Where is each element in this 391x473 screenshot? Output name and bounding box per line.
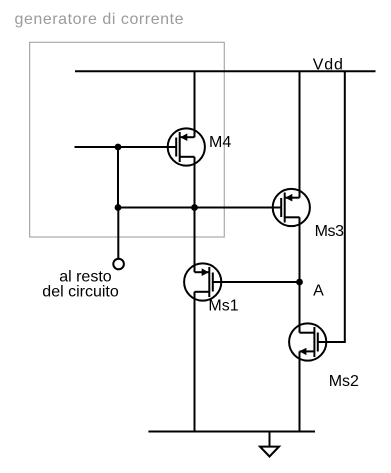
wire: Ms1 gate to node A	[213, 281, 300, 283]
wire: bias line to Ms3 gate	[118, 207, 281, 209]
wire: M4 bottom to Ms1 top	[194, 157, 196, 272]
svg-text:Vdd: Vdd	[313, 57, 344, 74]
transistor Ms3 (gate left)	[273, 189, 310, 226]
svg-text:M4: M4	[209, 134, 231, 151]
svg-text:Ms3: Ms3	[315, 223, 345, 240]
wire: M4 gate stub	[75, 146, 177, 148]
wire: Ms3 bottom through node A to Ms2 top	[299, 217, 301, 332]
node junction at gate line	[115, 144, 122, 151]
wire: Vdd to M4 top	[194, 71, 196, 137]
Vdd rail	[75, 70, 376, 72]
node A junction	[296, 279, 303, 286]
ground	[260, 432, 279, 457]
wire: Vdd down right side to Ms2 gate	[318, 71, 345, 342]
svg-text:del circuito: del circuito	[42, 283, 119, 300]
svg-text:Ms2: Ms2	[329, 373, 359, 390]
wire: Ms1 bottom to ground rail	[194, 292, 196, 432]
transistor Ms2 (mirrored, gate right)	[289, 323, 326, 360]
wire: vertical gate-feedback	[117, 147, 119, 208]
ground rail	[148, 431, 315, 433]
terminal to external circuit	[113, 259, 124, 270]
dashed boundary box (gray rectangle)	[30, 42, 225, 237]
wire: stem to external terminal	[117, 208, 119, 260]
svg-text:Ms1: Ms1	[208, 298, 238, 315]
wire: Vdd to Ms3 top	[299, 71, 301, 197]
transistor M4 (PMOS, gate left)	[168, 128, 205, 165]
node junction at bias line	[115, 204, 122, 211]
node junction at M4 drain	[191, 204, 198, 211]
svg-text:generatore di corrente: generatore di corrente	[15, 11, 185, 28]
svg-text:A: A	[313, 283, 324, 300]
transistor Ms1 (mirrored, gate right)	[184, 263, 221, 300]
wire: Ms2 bottom to ground rail	[299, 351, 301, 431]
